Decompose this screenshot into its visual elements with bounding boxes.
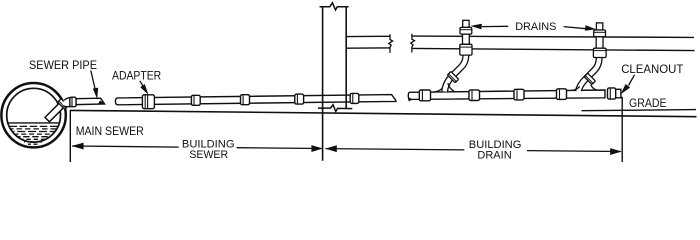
floor line break symbol (left end) [411, 34, 415, 53]
stack bottom cap with break [318, 105, 352, 112]
tilted hub band on diagonal pipe [58, 99, 69, 110]
branch pipe from stack bottom line [346, 47, 390, 49]
svg-text:SEWER: SEWER [189, 149, 228, 161]
water dashes row 8 [28, 143, 40, 145]
building sewer dimension line (left segment) [72, 146, 179, 147]
sewer pipe body [76, 98, 105, 104]
water dashes row 4 [15, 133, 53, 135]
pipe hub joint 3 [295, 94, 304, 104]
svg-text:MAIN SEWER: MAIN SEWER [76, 126, 144, 138]
drain 1 top stub [463, 20, 469, 27]
drains left arrowhead [470, 24, 482, 30]
drain 1 elbow+diagonal into wye [434, 48, 466, 98]
water dashes row 7 [24, 141, 44, 143]
dimension arrowhead right (building drain) [610, 148, 622, 155]
building drain dimension line (left segment) [326, 149, 465, 150]
building drain hub C [514, 89, 524, 100]
drain 2 hub band on diagonal [584, 73, 595, 84]
drain 2 vertical assembly [593, 23, 606, 58]
pipe hub joint 4 [350, 93, 359, 103]
drains right arrowhead [585, 25, 596, 31]
adapter coupling [142, 95, 154, 109]
main sewer inner circle [7, 88, 61, 142]
wye 2 cleanup [572, 91, 597, 97]
sewer pipe leader line [91, 71, 96, 93]
sewer pipe leader arrowhead [93, 88, 98, 99]
svg-text:SEWER PIPE: SEWER PIPE [29, 60, 97, 72]
svg-text:CLEANOUT: CLEANOUT [621, 64, 683, 76]
cleanout hub [608, 88, 616, 99]
drain 2 elbow+diagonal into wye [572, 52, 600, 97]
cleanout plug [616, 89, 621, 98]
drain 1 vertical assembly [460, 20, 472, 55]
drain 1 upper hub [460, 27, 472, 34]
pipe hub joint 1 [191, 95, 200, 105]
drain 2 upper hub [594, 30, 606, 37]
dimension arrowhead right (building sewer) [311, 145, 323, 152]
building sewer pipe (long, rises slightly to right) [115, 95, 396, 105]
building drain pipe [408, 90, 605, 99]
bell taper into sewer pipe hub [62, 98, 71, 107]
sewer pipe beveled end (black) [98, 100, 105, 104]
svg-text:DRAINS: DRAINS [515, 21, 556, 33]
diagonal inlet pipe through circle wall [45, 101, 66, 122]
building sewer dimension line (right segment) [237, 147, 322, 150]
cleanout dimension extension line [621, 97, 623, 162]
soil stack left line (continues down as dimension boundary) [322, 7, 324, 161]
floor lower line [412, 48, 695, 50]
building drain hub D [557, 89, 567, 100]
left dimension extension line [69, 110, 71, 162]
sewer pipe hub (bell at circle) [70, 97, 76, 107]
building drain dimension line (right segment) [527, 150, 621, 153]
branch break symbol [389, 34, 393, 53]
drain 2 pipe through floor [596, 37, 603, 48]
branch pipe from stack top line [346, 35, 390, 37]
building drain spigot end (black bevel) [408, 97, 412, 101]
building drain hub B [469, 90, 480, 101]
drain 1 pipe through floor [463, 34, 470, 44]
pipe hub joint 2 [241, 95, 250, 105]
building drain hub A [419, 90, 430, 101]
dimension arrowhead left (building drain) [325, 145, 337, 152]
drains right leader line [564, 27, 586, 29]
water dashes row 3 [13, 131, 55, 133]
drain 2 lower hub [593, 48, 606, 57]
soil stack right line [345, 7, 347, 109]
water dashes row 6 [21, 138, 46, 140]
adapter leader arrowhead [140, 84, 148, 95]
water dashes row 5 [18, 136, 50, 138]
floor upper line [412, 36, 694, 37]
water level line [8, 122, 59, 124]
wye 1 cleanup [434, 93, 454, 98]
dimension arrowhead left (building sewer) [72, 143, 84, 150]
adapter leader line [140, 81, 144, 87]
grade line (long, slopes slightly down to right) [70, 110, 696, 116]
water dashes row 1 [10, 125, 58, 127]
stack top cap with break [320, 3, 349, 10]
drain 1 hub band on diagonal [447, 71, 458, 82]
svg-text:ADAPTER: ADAPTER [112, 70, 161, 82]
grade line short (under GRADE label) [582, 110, 697, 111]
svg-text:DRAIN: DRAIN [477, 149, 511, 161]
svg-text:GRADE: GRADE [629, 98, 667, 110]
drains left leader line [482, 25, 508, 27]
water dashes row 2 [11, 128, 57, 130]
cleanout leader line [629, 75, 635, 86]
drain 1 lower hub [460, 44, 472, 55]
cleanout leader arrowhead [621, 84, 631, 94]
drain 2 top stub [596, 23, 602, 30]
main sewer cross-section outer circle [1, 83, 65, 147]
